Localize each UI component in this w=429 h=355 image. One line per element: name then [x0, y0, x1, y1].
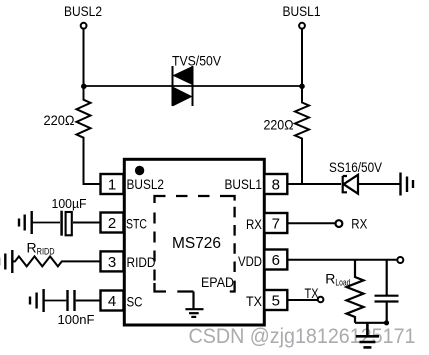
svg-text:7: 7 — [272, 216, 280, 233]
terminal VDD out — [397, 257, 403, 263]
svg-text:4: 4 — [108, 293, 116, 310]
wire ground to C1 — [32, 222, 60, 224]
resistor R4 RLoad — [347, 260, 364, 323]
svg-text:TX: TX — [305, 285, 320, 301]
svg-text:220Ω: 220Ω — [264, 117, 294, 133]
wire pin 7 to RX — [287, 222, 335, 224]
svg-text:BUSL1: BUSL1 — [283, 3, 321, 19]
wire C2 to pin 4 — [76, 300, 101, 302]
svg-text:TX: TX — [246, 294, 262, 309]
ground STC — [19, 211, 32, 234]
pin 2 box — [101, 213, 124, 233]
wire ground to C2 — [44, 300, 67, 302]
junction BUSL1 — [299, 84, 305, 90]
svg-text:220Ω: 220Ω — [44, 112, 75, 128]
ground RIDD — [0, 250, 12, 273]
pin 3 box — [101, 251, 124, 271]
capacitor C3 — [375, 260, 399, 323]
svg-text:6: 6 — [272, 252, 280, 269]
wire BUSL1 down — [301, 29, 303, 86]
pin-1 marker dot — [135, 166, 144, 175]
ground bottom — [356, 323, 379, 348]
wire RLoad to C3 bottom — [355, 322, 387, 324]
svg-text:2: 2 — [108, 215, 116, 232]
junction C3 bottom — [384, 320, 389, 325]
wire TVS horizontal — [84, 85, 303, 87]
svg-text:1: 1 — [108, 177, 116, 194]
svg-text:TVS/50V: TVS/50V — [172, 53, 222, 69]
pin 1 box — [101, 174, 124, 194]
EPAD dashed box — [155, 196, 235, 292]
svg-text:MS726: MS726 — [172, 235, 221, 252]
ground SC — [30, 289, 44, 312]
svg-text:100nF: 100nF — [58, 312, 95, 327]
junction BUSL2 — [81, 84, 87, 90]
svg-text:8: 8 — [272, 177, 280, 194]
wire pin 5 to TX — [287, 299, 317, 301]
wire pin 8 to diode — [287, 183, 341, 185]
terminal RX — [336, 220, 343, 227]
IC U1 MS726 body — [124, 159, 264, 325]
resistor R2 220ohm right — [295, 86, 309, 184]
svg-text:BUSL2: BUSL2 — [127, 177, 165, 192]
wire C1 to pin 2 — [73, 222, 101, 224]
pin 5 box — [264, 290, 287, 310]
svg-text:BUSL2: BUSL2 — [64, 3, 102, 19]
svg-text:5: 5 — [272, 293, 280, 310]
pin 8 box — [264, 174, 287, 194]
svg-text:SC: SC — [127, 295, 143, 310]
svg-text:RX: RX — [246, 217, 262, 232]
svg-text:BUSL1: BUSL1 — [225, 177, 263, 192]
svg-text:RX: RX — [351, 216, 368, 232]
svg-text:RIDD: RIDD — [127, 255, 156, 270]
svg-text:100µF: 100µF — [52, 196, 87, 211]
resistor R3 RIDD — [12, 256, 100, 266]
svg-text:EPAD: EPAD — [201, 275, 234, 290]
resistor R1 220ohm left — [77, 86, 101, 184]
ground EPAD — [185, 292, 203, 317]
TVS D1 — [173, 66, 193, 106]
wire diode to ground — [359, 183, 401, 185]
svg-text:SS16/50V: SS16/50V — [329, 160, 382, 175]
svg-text:CSDN @zjg18126125171: CSDN @zjg18126125171 — [189, 325, 416, 348]
terminal TX — [318, 297, 324, 303]
svg-text:STC: STC — [126, 217, 147, 232]
terminal BUSL2 — [81, 23, 87, 29]
svg-text:VDD: VDD — [238, 254, 262, 269]
capacitor C1 100uF — [60, 211, 63, 236]
wire BUSL2 down — [83, 29, 85, 86]
pin 6 box — [264, 250, 287, 270]
svg-text:3: 3 — [108, 254, 116, 271]
terminal BUSL1 — [299, 23, 305, 29]
wire pin 6 VDD — [287, 259, 396, 261]
ground D2 — [401, 173, 414, 196]
capacitor C2 100nF — [66, 290, 68, 311]
pin 7 box — [264, 213, 287, 233]
diode D2 SS16 schottky — [343, 175, 358, 194]
pin 4 box — [101, 291, 124, 311]
